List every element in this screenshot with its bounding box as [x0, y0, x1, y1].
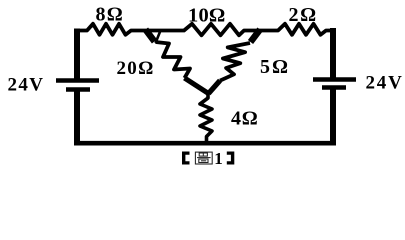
- svg-text:8Ω: 8Ω: [96, 4, 125, 26]
- svg-text:24V: 24V: [366, 72, 404, 93]
- svg-text:4Ω: 4Ω: [231, 108, 259, 130]
- svg-text:20Ω: 20Ω: [117, 58, 155, 79]
- svg-text:2Ω: 2Ω: [289, 4, 318, 26]
- svg-text:5Ω: 5Ω: [260, 56, 290, 78]
- svg-text:10Ω: 10Ω: [188, 5, 226, 27]
- svg-text:1: 1: [214, 149, 223, 168]
- svg-text:24V: 24V: [8, 75, 45, 96]
